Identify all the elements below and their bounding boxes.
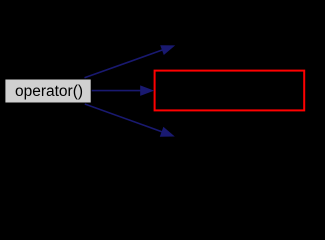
node truncated (red) (155, 71, 305, 111)
svg-text:operator(): operator() (15, 83, 83, 100)
node operator() (5, 79, 91, 103)
wire edge middle (92, 85, 155, 96)
wire edge top (85, 45, 176, 78)
wire edge bottom (85, 104, 175, 137)
